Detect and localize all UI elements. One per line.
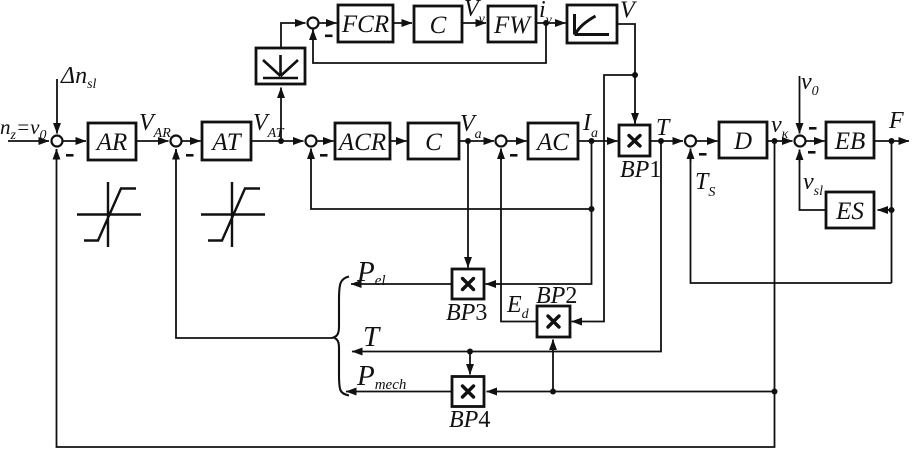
block EB [826,122,874,158]
wire i_v feedback to S7 [313,23,546,63]
block C main [408,123,459,159]
wire S3 to ACR [317,140,334,142]
wire T_S from F line up to S5 [691,150,892,284]
summing junction S1 [52,136,63,147]
svg-text:BP1: BP1 [620,157,661,183]
wire V branch down to BP2 right [590,75,635,322]
svg-text:BP3: BP3 [446,300,487,326]
junction dot at ES input [889,207,895,213]
junction dot I_a [589,138,595,144]
multiplier BP2 [537,306,570,337]
block D [719,122,767,158]
multiplier BP4 [452,377,484,407]
junction dot i_v [543,20,549,26]
svg-text:AR: AR [95,129,128,156]
wire bottom return vk to S1 [57,150,775,448]
svg-text:F: F [888,108,904,134]
block FCR [338,5,393,42]
wire S7 to FCR [319,22,337,24]
minus sign S6 bottom [808,151,816,154]
wire C to S4 with node V_a [459,140,494,142]
svg-text:AT: AT [210,129,242,156]
block AR [88,123,136,160]
svg-text:AC: AC [535,129,569,156]
wire T feedback to brace [480,141,661,352]
wire AT to S3 with node V_AT [251,140,304,142]
junction dot BP2 speed branch [550,389,556,395]
limiter symbol inside limiter block [263,55,298,78]
wire S4 to AC [507,140,527,142]
block FW [488,6,536,42]
x mark BP3 [463,279,474,290]
wire V from SAT down to BP1 [617,24,635,124]
brace collecting P_el T P_mech [334,277,350,396]
wire S5 to D [696,140,718,142]
svg-text:Δnsl: Δnsl [60,63,97,92]
minus sign S3 [320,154,328,157]
wire into ES right [878,209,892,211]
junction dot vk-BP4 [772,389,778,395]
wire EB to F output [874,140,909,142]
multiplier BP3 [452,269,484,299]
block AT [202,122,251,160]
wire limiter to S7 [281,23,288,48]
multiplier BP1 [619,125,650,156]
junction dot I_a-S3 branch [589,206,595,212]
block C2 [414,6,462,42]
junction dot V_AT [278,138,284,144]
svg-text:v0: v0 [801,69,819,99]
junction dot T-BP4 branch [467,349,473,355]
svg-text:T: T [363,321,381,353]
wire speed up to BP2 bottom [552,340,554,392]
wire S1 to AR [63,140,86,142]
wire BP4 output P_mech [346,391,452,393]
wire BP1 to S5 with node T [650,140,683,142]
wire AR to S2 [136,140,169,142]
wire C2 to FW [462,22,486,24]
svg-text:FW: FW [493,12,532,39]
wire v_0 input to S6 [799,76,801,134]
x mark BP4 [463,386,474,397]
wire S6 to EB [806,140,825,142]
wire input n_z=v0 [8,140,49,142]
minus sign S1 [66,154,74,157]
junction dot T [658,138,664,144]
svg-text:ES: ES [835,198,864,225]
svg-text:Ia: Ia [582,110,598,141]
svg-text:Pel: Pel [356,256,386,289]
minus sign S4 [510,154,518,157]
block AC [528,123,578,159]
wire S2 to AT [182,140,201,142]
summing junction S4 [496,136,507,147]
svg-text:EB: EB [834,128,866,155]
wire V_AT up to limiter [280,88,282,142]
wire ACR to C [390,140,407,142]
summing junction S3 [306,136,317,147]
junction dot v_k [772,138,778,144]
wire dn_sl input [56,79,58,134]
svg-text:T: T [656,115,671,141]
minus sign S2 [186,154,194,157]
wire AC to BP1 with node I_a [578,140,618,142]
summing junction S7 [308,18,319,29]
block ACR [335,123,390,159]
svg-text:Ed: Ed [506,292,530,322]
block ES [826,192,874,228]
svg-text:VAT: VAT [253,110,285,141]
wire Ia feedback to S3 [311,150,592,210]
limiter glyph 2 below AT [201,182,265,247]
svg-text:V: V [620,0,637,24]
wire V_a down to BP3 top [467,141,469,268]
minus sign S6 top [809,127,817,130]
block saturation [567,5,617,43]
wire ES output v_sl to S6 [800,151,827,210]
junction dot V_a [465,138,471,144]
summing junction S5 [685,136,696,147]
svg-text:VAR: VAR [139,110,171,141]
wire v_k down to BP4 right [500,141,775,392]
minus sign S5 [699,153,707,156]
wire S2 feedback from brace [176,150,333,339]
svg-text:C: C [425,129,442,156]
wire T down to BP4 top [469,352,471,375]
x mark BP2 [548,316,559,327]
saturation curve inside block [575,14,610,35]
wire F down to T_S line [891,141,893,283]
svg-text:BP4: BP4 [449,407,490,433]
svg-text:vsl: vsl [803,169,823,199]
junction dot F [889,138,895,144]
svg-text:C: C [430,12,447,39]
svg-text:FCR: FCR [341,11,389,38]
svg-text:ACR: ACR [337,129,386,156]
svg-text:Va: Va [460,111,482,142]
wire FW to SAT with node i_v [536,22,566,24]
svg-text:Pmech: Pmech [356,360,406,393]
wire BP3 output P_el [351,283,452,285]
svg-text:D: D [733,128,752,155]
svg-text:TS: TS [695,169,715,200]
svg-text:vκ: vκ [771,112,789,142]
block limiter [256,48,305,84]
wire FCR to C2 [393,22,412,24]
wire I_a down to BP3 right [500,141,592,284]
summing junction S2 [171,136,182,147]
limiter glyph 1 below AR [77,182,141,247]
wire D to S6 with node v_k [767,140,793,142]
wire E_d from BP2 to S4 [501,150,537,322]
minus sign S7 [325,35,333,38]
summing junction S6 [795,136,806,147]
x mark BP1 [629,136,640,147]
svg-text:nz=v0: nz=v0 [0,115,46,143]
junction dot V branch [632,72,638,78]
svg-text:BP2: BP2 [536,283,577,309]
